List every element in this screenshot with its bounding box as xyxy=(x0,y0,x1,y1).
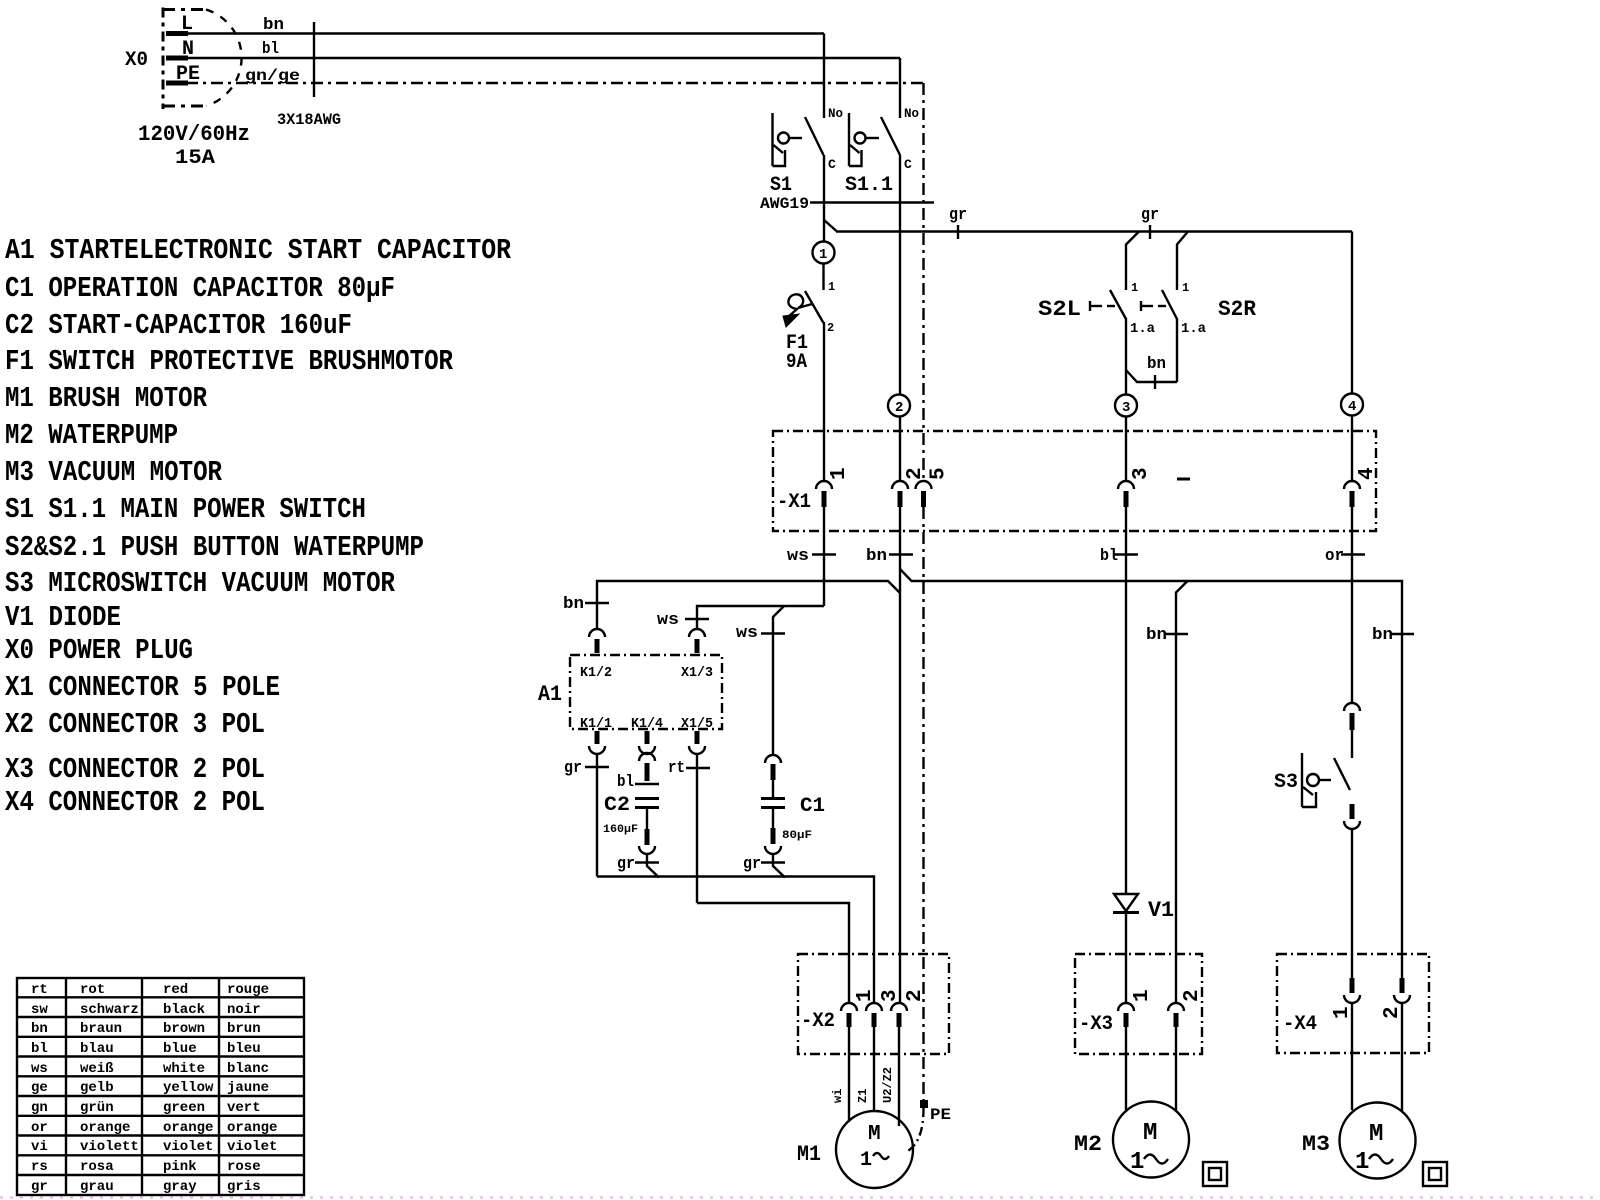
svg-text:1.a: 1.a xyxy=(1130,321,1156,337)
color code table xyxy=(17,978,304,1195)
wire bus y581 left xyxy=(597,581,900,629)
svg-text:-X4: -X4 xyxy=(1283,1013,1317,1036)
power plug X0 xyxy=(125,8,250,171)
wire y606 from X1.1 xyxy=(697,606,824,629)
wire branch to C1 xyxy=(773,606,784,755)
svg-text:brun: brun xyxy=(227,1021,261,1037)
svg-text:gris: gris xyxy=(227,1179,261,1195)
X1 pin 4 xyxy=(1344,467,1379,507)
svg-text:2: 2 xyxy=(904,989,927,1002)
wire X1.3 down (bl) xyxy=(1125,507,1127,894)
svg-text:rot: rot xyxy=(80,982,105,998)
svg-text:5: 5 xyxy=(928,467,951,480)
svg-text:ws: ws xyxy=(657,611,679,630)
svg-text:120V/60Hz: 120V/60Hz xyxy=(138,122,250,147)
svg-text:M2 WATERPUMP: M2 WATERPUMP xyxy=(5,419,178,452)
svg-text:3: 3 xyxy=(1122,400,1130,416)
svg-text:gn: gn xyxy=(31,1100,48,1116)
svg-text:bn: bn xyxy=(1147,355,1166,374)
motor M1 xyxy=(797,1111,913,1188)
breaker F1 xyxy=(783,291,834,374)
startelectronic A1 box xyxy=(570,655,722,729)
svg-text:C1 OPERATION CAPACITOR 80µF: C1 OPERATION CAPACITOR 80µF xyxy=(5,272,395,305)
svg-text:C: C xyxy=(828,157,836,172)
svg-text:2: 2 xyxy=(1181,989,1204,1002)
svg-text:gr: gr xyxy=(949,206,967,225)
wires X2 to M1 xyxy=(848,1027,850,1122)
svg-text:rt: rt xyxy=(668,759,685,778)
wires X4 to M3 xyxy=(1351,1003,1353,1110)
svg-text:M1 BRUSH MOTOR: M1 BRUSH MOTOR xyxy=(5,382,207,415)
switch S1.1 xyxy=(845,106,919,197)
svg-text:F1 SWITCH PROTECTIVE BRUSHMOTO: F1 SWITCH PROTECTIVE BRUSHMOTOR xyxy=(5,345,453,378)
svg-text:black: black xyxy=(163,1002,205,1018)
svg-text:grau: grau xyxy=(80,1179,114,1195)
svg-text:vert: vert xyxy=(227,1100,261,1116)
svg-text:X2 CONNECTOR 3 POL: X2 CONNECTOR 3 POL xyxy=(5,708,265,741)
X2 pin 2 xyxy=(891,989,927,1027)
svg-text:X0: X0 xyxy=(125,49,148,72)
svg-text:1: 1 xyxy=(1131,281,1138,295)
wire L (bn) xyxy=(186,32,824,34)
svg-text:C2: C2 xyxy=(604,794,630,817)
wire bevel S2R xyxy=(1177,232,1188,291)
wire PE drop (dash-dot) xyxy=(922,83,924,480)
double insulation symbol M2 xyxy=(1203,1162,1227,1186)
svg-text:yellow: yellow xyxy=(163,1080,214,1096)
svg-text:1.a: 1.a xyxy=(1181,321,1207,337)
svg-text:1: 1 xyxy=(828,280,835,294)
svg-text:gelb: gelb xyxy=(80,1080,114,1096)
wire S1.1 C down to X1 pin2 xyxy=(899,155,901,394)
svg-text:K1/1: K1/1 xyxy=(580,716,612,732)
svg-text:orange: orange xyxy=(227,1120,277,1136)
svg-text:4: 4 xyxy=(1356,467,1379,480)
X2 pin 1 xyxy=(841,989,877,1027)
svg-text:1: 1 xyxy=(1331,1006,1354,1019)
svg-text:-X2: -X2 xyxy=(801,1010,835,1033)
svg-text:2: 2 xyxy=(895,400,903,416)
svg-text:bn: bn xyxy=(1146,626,1167,645)
A1 pin K1/1 xyxy=(589,731,605,754)
node 4 xyxy=(1341,394,1363,416)
svg-text:bn: bn xyxy=(263,16,284,35)
svg-text:rosa: rosa xyxy=(80,1159,114,1175)
svg-text:4: 4 xyxy=(1348,399,1356,415)
svg-text:blau: blau xyxy=(80,1041,114,1057)
motor M2 xyxy=(1074,1102,1189,1178)
wire S2L lower xyxy=(1125,318,1127,394)
svg-text:M: M xyxy=(1143,1120,1157,1147)
svg-text:rs: rs xyxy=(31,1159,48,1175)
svg-text:ws: ws xyxy=(736,624,758,643)
wire gr horizontal xyxy=(836,230,1352,232)
wire X1.4 down (or) xyxy=(1351,507,1353,702)
diode V1 xyxy=(1113,894,1174,1002)
wire X1.2 down (bn) xyxy=(899,507,901,1002)
svg-text:rt: rt xyxy=(31,982,48,998)
wire PE (gn/ge) dash-dot xyxy=(186,82,924,84)
wire K1/1 down gr xyxy=(596,754,598,877)
svg-text:bl: bl xyxy=(1100,547,1118,566)
svg-text:No: No xyxy=(904,106,919,121)
wire gr to node 4 xyxy=(1351,232,1353,394)
svg-text:Z1: Z1 xyxy=(856,1089,870,1103)
svg-text:K1/2: K1/2 xyxy=(580,665,612,681)
svg-text:3: 3 xyxy=(1130,467,1153,480)
svg-text:AWG19: AWG19 xyxy=(760,195,809,213)
svg-text:M3 VACUUM MOTOR: M3 VACUUM MOTOR xyxy=(5,456,222,489)
wire node4 to X1 pin4 xyxy=(1351,416,1353,481)
svg-text:1: 1 xyxy=(860,1149,872,1172)
svg-text:braun: braun xyxy=(80,1021,122,1037)
wire bevel to gr line xyxy=(824,220,837,232)
svg-text:violet: violet xyxy=(163,1139,213,1155)
svg-text:gr: gr xyxy=(743,855,761,874)
svg-text:green: green xyxy=(163,1100,205,1116)
wire X1.5 PE dash-dot down xyxy=(922,507,924,1100)
gr tick 1 xyxy=(957,225,959,239)
svg-text:PE: PE xyxy=(930,1106,951,1124)
svg-text:violett: violett xyxy=(80,1139,139,1155)
svg-text:S2&S2.1 PUSH BUTTON WATERPUMP: S2&S2.1 PUSH BUTTON WATERPUMP xyxy=(5,531,424,564)
svg-text:or: or xyxy=(31,1120,48,1136)
svg-text:2: 2 xyxy=(904,467,927,480)
svg-text:C2 START-CAPACITOR 160uF: C2 START-CAPACITOR 160uF xyxy=(5,309,352,342)
svg-text:vi: vi xyxy=(31,1139,48,1155)
X2 pin 3 xyxy=(866,989,902,1027)
svg-text:X0 POWER PLUG: X0 POWER PLUG xyxy=(5,634,193,667)
connector X1 box xyxy=(773,431,1376,531)
svg-text:V1: V1 xyxy=(1148,898,1174,923)
svg-text:X4 CONNECTOR 2 POL: X4 CONNECTOR 2 POL xyxy=(5,786,265,819)
svg-text:sw: sw xyxy=(31,1002,48,1018)
bn tick x1402 xyxy=(1390,633,1414,635)
svg-text:S3 MICROSWITCH VACUUM MOTOR: S3 MICROSWITCH VACUUM MOTOR xyxy=(5,567,395,600)
svg-text:ws: ws xyxy=(787,547,809,566)
svg-text:80µF: 80µF xyxy=(782,830,812,842)
double insulation symbol M3 xyxy=(1423,1162,1447,1186)
svg-text:orange: orange xyxy=(80,1120,130,1136)
node 2 xyxy=(888,395,910,417)
svg-text:or: or xyxy=(1325,547,1344,566)
svg-text:C: C xyxy=(904,157,912,172)
svg-text:M: M xyxy=(1369,1121,1383,1148)
svg-text:violet: violet xyxy=(227,1139,277,1155)
wire node3 to X1 pin3 xyxy=(1125,417,1127,481)
A1 pin X1/5 xyxy=(689,731,705,754)
svg-text:2: 2 xyxy=(1381,1006,1404,1019)
switch S1 xyxy=(770,106,843,197)
svg-text:V1 DIODE: V1 DIODE xyxy=(5,601,121,634)
gr tick 2 xyxy=(1149,225,1151,239)
svg-text:1: 1 xyxy=(1182,281,1189,295)
svg-text:white: white xyxy=(163,1061,205,1077)
svg-text:gr: gr xyxy=(617,855,635,874)
X1 pin 3 xyxy=(1118,467,1153,507)
svg-text:gr: gr xyxy=(564,759,582,778)
svg-text:X1/3: X1/3 xyxy=(681,665,713,681)
node 1 xyxy=(813,242,835,264)
PE curve to motor M1 xyxy=(908,1108,924,1151)
svg-text:bleu: bleu xyxy=(227,1041,261,1057)
wire node1 to F1 xyxy=(822,264,824,291)
svg-text:brown: brown xyxy=(163,1021,205,1037)
capacitor C2 xyxy=(603,763,659,878)
wire ws tick x697 xyxy=(685,618,709,620)
svg-text:S1 S1.1 MAIN POWER SWITCH: S1 S1.1 MAIN POWER SWITCH xyxy=(5,493,366,526)
X4 pin 2 xyxy=(1381,978,1410,1019)
svg-text:1: 1 xyxy=(1131,989,1154,1002)
wires X3 to M2 xyxy=(1125,1027,1127,1110)
svg-text:weiß: weiß xyxy=(80,1061,114,1077)
svg-text:M3: M3 xyxy=(1302,1132,1330,1157)
motor M3 xyxy=(1302,1103,1416,1179)
svg-text:K1/4: K1/4 xyxy=(631,716,663,732)
capacitor C1 xyxy=(743,755,825,878)
wire S1 C down xyxy=(823,155,825,242)
svg-text:S1: S1 xyxy=(770,174,792,197)
svg-text:2: 2 xyxy=(827,321,834,335)
svg-text:bn: bn xyxy=(1372,626,1393,645)
wire node2 to X1 pin2 xyxy=(899,417,901,481)
wire F1 down to X1 pin1 xyxy=(823,322,825,480)
svg-text:pink: pink xyxy=(163,1159,197,1175)
X3 pin 2 xyxy=(1168,989,1204,1027)
push button S2R xyxy=(1141,281,1257,337)
svg-text:S3: S3 xyxy=(1274,771,1298,794)
svg-text:1: 1 xyxy=(1130,1149,1144,1176)
svg-text:M1: M1 xyxy=(797,1142,821,1167)
svg-text:U2/Z2: U2/Z2 xyxy=(881,1067,895,1103)
push button S2L xyxy=(1038,281,1156,337)
svg-text:X1 CONNECTOR 5 POLE: X1 CONNECTOR 5 POLE xyxy=(5,671,280,704)
wire bevel S2L xyxy=(1126,232,1139,291)
X3 pin 1 xyxy=(1118,989,1154,1027)
svg-text:blanc: blanc xyxy=(227,1061,269,1077)
X1 pin 1 xyxy=(816,467,851,507)
wire N (bl) xyxy=(186,57,900,59)
svg-text:red: red xyxy=(163,982,188,998)
svg-text:bn: bn xyxy=(31,1021,48,1037)
svg-text:S1.1: S1.1 xyxy=(845,174,893,197)
svg-text:A1: A1 xyxy=(538,682,562,707)
wire branch x1176 xyxy=(1176,581,1188,1002)
svg-text:S2L: S2L xyxy=(1038,297,1081,322)
svg-text:-X3: -X3 xyxy=(1079,1013,1113,1036)
X1 dash mark xyxy=(1177,478,1190,481)
svg-text:bn: bn xyxy=(866,547,887,566)
A1 pin K1/4 + disconnect xyxy=(639,731,655,761)
node 3 xyxy=(1115,395,1137,417)
svg-text:M: M xyxy=(868,1123,881,1146)
svg-text:3X18AWG: 3X18AWG xyxy=(277,111,341,129)
wire bus y581 right xyxy=(900,569,1402,978)
svg-text:ge: ge xyxy=(31,1080,48,1096)
wire L drop to S1 xyxy=(823,34,825,119)
svg-text:bl: bl xyxy=(262,40,279,59)
legend list xyxy=(5,234,512,819)
svg-text:160µF: 160µF xyxy=(603,824,638,836)
PE junction dot xyxy=(920,1100,928,1108)
svg-text:gr: gr xyxy=(31,1179,48,1195)
svg-text:15A: 15A xyxy=(175,147,215,170)
svg-text:1: 1 xyxy=(828,467,851,480)
svg-text:1: 1 xyxy=(1355,1149,1369,1176)
svg-text:orange: orange xyxy=(163,1120,213,1136)
svg-text:M2: M2 xyxy=(1074,1132,1102,1157)
svg-text:3: 3 xyxy=(879,989,902,1002)
svg-text:blue: blue xyxy=(163,1041,197,1057)
X1 pin 2 xyxy=(892,467,927,507)
svg-text:bn: bn xyxy=(563,595,584,614)
svg-text:wi: wi xyxy=(831,1089,845,1103)
connector X3 box xyxy=(1075,954,1202,1054)
S3 bottom connector pin xyxy=(1344,804,1360,978)
A1 pin X1/3 xyxy=(689,629,705,653)
svg-text:X1/5: X1/5 xyxy=(681,716,713,732)
svg-text:rose: rose xyxy=(227,1159,261,1175)
X1 pin 5 xyxy=(916,467,951,507)
cable marker 3X18AWG xyxy=(313,22,315,97)
microswitch S3 xyxy=(1274,753,1350,807)
wire gr bus xyxy=(597,877,874,1003)
wire N drop to S1.1 xyxy=(899,58,901,118)
svg-text:bl: bl xyxy=(617,773,634,792)
svg-text:gray: gray xyxy=(163,1179,197,1195)
svg-text:ws: ws xyxy=(31,1061,48,1077)
svg-text:1: 1 xyxy=(819,247,827,263)
svg-text:gn/ge: gn/ge xyxy=(245,67,300,85)
svg-text:S2R: S2R xyxy=(1218,297,1257,322)
svg-text:-X1: -X1 xyxy=(777,491,811,514)
A1 pin K1/2 xyxy=(589,629,605,653)
connector X2 box xyxy=(798,954,949,1054)
svg-text:grün: grün xyxy=(80,1100,114,1116)
wire X1/5 down rt xyxy=(696,754,698,903)
svg-text:jaune: jaune xyxy=(227,1080,269,1096)
S3 top connector pin xyxy=(1344,703,1360,758)
wire X1.1 down (ws) xyxy=(823,507,825,606)
X4 pin 1 xyxy=(1331,978,1360,1019)
svg-text:schwarz: schwarz xyxy=(80,1002,139,1018)
svg-text:9A: 9A xyxy=(786,351,807,374)
svg-text:X3 CONNECTOR 2 POL: X3 CONNECTOR 2 POL xyxy=(5,753,265,786)
artifact dotted line xyxy=(0,1197,1600,1199)
svg-text:A1 STARTELECTRONIC START CAPA: A1 STARTELECTRONIC START CAPACITOR xyxy=(5,234,512,267)
svg-text:bl: bl xyxy=(31,1041,48,1057)
svg-text:rouge: rouge xyxy=(227,982,269,998)
wire rt bus to X2.1 xyxy=(697,903,849,1002)
svg-text:No: No xyxy=(828,106,843,121)
svg-text:gr: gr xyxy=(1141,206,1159,225)
svg-text:C1: C1 xyxy=(800,795,825,818)
connector X4 box xyxy=(1277,954,1429,1053)
svg-text:1: 1 xyxy=(854,989,877,1002)
svg-text:noir: noir xyxy=(227,1002,261,1018)
wire S2 bottom link xyxy=(1126,370,1177,382)
bn tick S2 xyxy=(1154,375,1156,389)
